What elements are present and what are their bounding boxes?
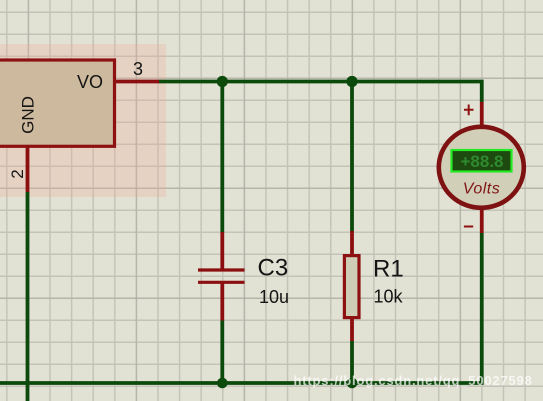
svg-text:2: 2	[8, 169, 27, 178]
svg-text:C3: C3	[258, 255, 289, 282]
svg-text:10k: 10k	[374, 287, 404, 307]
svg-text:+88.8: +88.8	[460, 152, 503, 171]
svg-text:R1: R1	[373, 256, 404, 283]
svg-text:GND: GND	[19, 96, 38, 134]
svg-text:3: 3	[133, 59, 143, 79]
svg-text:10u: 10u	[259, 287, 289, 307]
svg-text:Volts: Volts	[463, 180, 500, 197]
svg-text:VO: VO	[77, 72, 103, 92]
